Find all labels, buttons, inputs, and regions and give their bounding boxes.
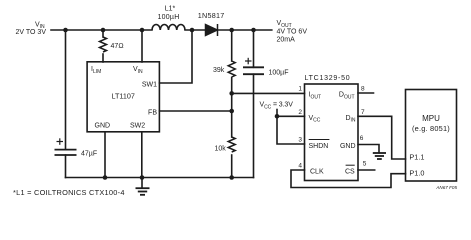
svg-text:3: 3 bbox=[298, 137, 302, 144]
svg-text:47Ω: 47Ω bbox=[111, 43, 124, 50]
wire DOUT pin 8 stub bbox=[358, 92, 374, 94]
wire CLK pin 4 to MPU P1.0 bbox=[291, 170, 406, 188]
svg-text:SW1: SW1 bbox=[142, 82, 157, 89]
wire 39k top lead bbox=[231, 30, 233, 61]
node VIN / 47ohm bbox=[101, 28, 106, 33]
svg-text:7: 7 bbox=[361, 109, 365, 116]
svg-text:8: 8 bbox=[361, 86, 365, 93]
wire SW2 pin to bottom rail bbox=[141, 132, 143, 178]
wire diode cathode to VOUT stub bbox=[218, 29, 272, 31]
wire 47ohm top lead bbox=[102, 30, 104, 37]
node IOUT / 39k-10k bbox=[229, 91, 234, 96]
resistor 39k bbox=[228, 61, 235, 77]
svg-text:LTC1329-50: LTC1329-50 bbox=[305, 75, 351, 82]
wire 100uF bottom lead bbox=[253, 74, 255, 177]
wire FB to divider node bbox=[159, 110, 231, 112]
node VCC 3.3V bbox=[275, 114, 280, 119]
wire 10k bottom lead bbox=[231, 155, 233, 178]
svg-text:CS: CS bbox=[345, 168, 355, 175]
svg-text:P1.0: P1.0 bbox=[409, 169, 424, 178]
inductor L1 bbox=[152, 25, 185, 31]
svg-text:L1*: L1* bbox=[165, 6, 176, 13]
wire CS pin 5 stub bbox=[358, 169, 375, 171]
plus polarity mark C2 bbox=[245, 58, 252, 65]
svg-text:(e.g. 8051): (e.g. 8051) bbox=[412, 124, 450, 133]
node VOUT / 39k bbox=[229, 28, 234, 33]
node VIN / C1 bbox=[63, 28, 68, 33]
node SW1 / L1 / diode bbox=[190, 28, 195, 33]
svg-text:DOUT: DOUT bbox=[339, 92, 355, 101]
svg-text:5: 5 bbox=[363, 161, 367, 168]
wire VCC node to pin 2 bbox=[277, 115, 305, 117]
svg-text:P1.1: P1.1 bbox=[409, 153, 424, 162]
svg-text:SW2: SW2 bbox=[130, 123, 145, 130]
node FB bbox=[229, 109, 234, 114]
wire GND pin 6 to ground bbox=[358, 145, 379, 153]
svg-text:GND: GND bbox=[340, 143, 356, 150]
svg-text:2V TO 3V: 2V TO 3V bbox=[16, 29, 47, 36]
op-amp U1 LT1107 box bbox=[87, 62, 159, 132]
svg-text:SHDN: SHDN bbox=[309, 143, 329, 150]
overline SHDN bbox=[309, 139, 330, 141]
resistor 47ohm bbox=[100, 37, 107, 52]
svg-text:20mA: 20mA bbox=[277, 37, 296, 44]
svg-text:VIN: VIN bbox=[133, 66, 143, 75]
node GND rail / GND pin bbox=[103, 175, 108, 180]
svg-text:47µF: 47µF bbox=[81, 151, 97, 158]
node VOUT / C2 bbox=[251, 28, 256, 33]
ground (LTC1329 pin 6) bbox=[373, 153, 386, 159]
wire SW1 to inductor-diode node bbox=[159, 30, 192, 83]
svg-text:4: 4 bbox=[298, 162, 302, 169]
svg-text:CLK: CLK bbox=[310, 168, 324, 175]
svg-text:GND: GND bbox=[95, 123, 111, 130]
svg-text:VCC: VCC bbox=[309, 115, 321, 124]
wire VCC node to SHDN pin 3 bbox=[277, 116, 305, 144]
svg-text:100µF: 100µF bbox=[269, 70, 289, 77]
svg-text:39k: 39k bbox=[213, 67, 225, 74]
wire 100uF top lead bbox=[253, 30, 255, 67]
wire 39k bottom lead to feedback node bbox=[231, 78, 233, 112]
svg-text:4V TO 6V: 4V TO 6V bbox=[277, 28, 308, 35]
node GND rail / 10k bbox=[229, 175, 234, 180]
svg-text:*L1 = COILTRONICS CTX100-4: *L1 = COILTRONICS CTX100-4 bbox=[13, 188, 125, 197]
wire 10k top lead bbox=[231, 111, 233, 137]
svg-text:FB: FB bbox=[148, 109, 157, 116]
svg-text:IOUT: IOUT bbox=[309, 92, 322, 101]
svg-text:DIN: DIN bbox=[345, 115, 355, 124]
node GND rail / SW2 bbox=[140, 175, 145, 180]
DAC U2 LTC1329-50 box bbox=[305, 84, 359, 181]
capacitor C1 47uF bbox=[55, 150, 77, 155]
node VIN / VIN pin bbox=[140, 28, 145, 33]
diode D1 1N5817 bbox=[206, 24, 218, 36]
svg-text:100µH: 100µH bbox=[157, 14, 179, 21]
svg-text:1N5817: 1N5817 bbox=[198, 11, 225, 20]
svg-text:MPU: MPU bbox=[422, 114, 440, 123]
svg-text:1: 1 bbox=[298, 86, 302, 93]
svg-text:AN67 F05: AN67 F05 bbox=[435, 185, 457, 190]
plus polarity mark C1 bbox=[57, 138, 64, 145]
capacitor C2 100uF bbox=[243, 67, 264, 74]
junction dots on VIN rail bbox=[63, 28, 279, 180]
svg-text:10k: 10k bbox=[215, 146, 227, 153]
wire DIN pin 7 to MPU P1.1 bbox=[358, 116, 406, 159]
svg-text:ILIM: ILIM bbox=[91, 66, 101, 75]
wire VCC label stub bbox=[276, 110, 278, 117]
MPU box bbox=[406, 90, 457, 182]
wire 47uF bottom lead bbox=[65, 155, 67, 178]
ground (main, below SW2) bbox=[136, 178, 150, 195]
wire rail between inductor and diode bbox=[185, 29, 206, 31]
resistor 10k bbox=[228, 137, 235, 152]
svg-text:LT1107: LT1107 bbox=[112, 92, 135, 101]
svg-text:2: 2 bbox=[298, 109, 302, 116]
wire 47ohm bottom lead to ILIM pin bbox=[102, 54, 104, 62]
wire feedback node to IOUT pin 1 bbox=[232, 92, 305, 94]
wire GND pin to bottom rail bbox=[104, 132, 106, 178]
svg-text:6: 6 bbox=[360, 135, 364, 142]
wire VIN input rail bbox=[51, 29, 152, 31]
overline CS bbox=[346, 164, 355, 166]
wire VIN pin lead bbox=[141, 30, 143, 62]
wire bottom ground rail bbox=[66, 177, 254, 179]
wire 47uF top lead bbox=[65, 30, 67, 150]
